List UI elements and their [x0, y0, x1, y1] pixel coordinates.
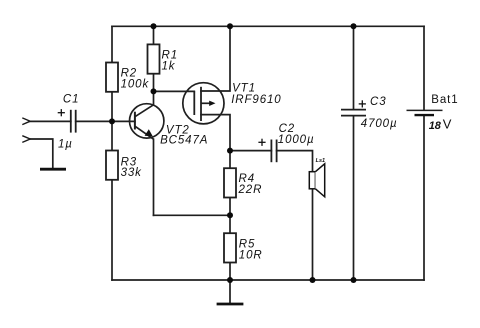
wire C1 to input node — [76, 120, 112, 122]
wire VT2 collector — [135, 91, 153, 116]
svg-text:IRF9610: IRF9610 — [231, 94, 281, 106]
VT2 emitter with arrow — [135, 126, 153, 139]
svg-text:1k: 1k — [162, 61, 176, 73]
wire R5 branch — [229, 215, 231, 280]
svg-text:1000µ: 1000µ — [278, 134, 315, 146]
wire input to C1 — [30, 120, 71, 122]
wire C3 branch upper — [353, 26, 355, 109]
wire C2 to speaker — [277, 151, 313, 172]
node C3 rail — [351, 277, 357, 283]
wire VT1 source lead — [201, 115, 230, 151]
wire top rail — [112, 25, 424, 27]
resistor R1 — [148, 44, 160, 73]
node top C3 — [351, 23, 357, 29]
wire source node to C2 — [230, 150, 271, 152]
node top R1 — [151, 23, 157, 29]
capacitor C2 — [271, 140, 276, 163]
svg-text:BC547A: BC547A — [160, 135, 208, 147]
resistor R4 — [224, 168, 236, 197]
transistor VT1 body circle — [183, 83, 224, 124]
node R4/R5/emitter — [227, 212, 233, 218]
svg-text:18: 18 — [429, 120, 442, 132]
wire C3 branch lower — [353, 116, 355, 280]
ground (main) — [217, 303, 244, 306]
transistor VT2 (BC547A) — [130, 104, 209, 147]
wire ground stub — [229, 280, 231, 303]
svg-text:33k: 33k — [121, 167, 143, 179]
wire R4 branch — [229, 151, 231, 216]
svg-text:4700µ: 4700µ — [361, 118, 398, 130]
svg-text:V: V — [443, 117, 452, 132]
svg-text:Ls1: Ls1 — [316, 158, 325, 164]
resistor R2 — [106, 63, 118, 92]
wire emitter to R4/R5 node — [154, 214, 231, 216]
VT1 gate bar — [193, 91, 195, 115]
input terminal lower — [22, 136, 30, 143]
node source/C2 — [227, 148, 233, 154]
node gate/R1 — [151, 88, 157, 94]
node speaker rail — [310, 277, 316, 283]
input terminal upper — [22, 118, 30, 125]
VT2 body circle — [130, 104, 164, 138]
speaker Ls1 — [309, 158, 325, 197]
resistor R5 — [224, 233, 236, 262]
node ground rail — [227, 277, 233, 283]
transistor VT1 (MOSFET IRF9610) — [183, 83, 282, 124]
VT1 channel bar — [200, 87, 202, 121]
VT2 base bar — [134, 112, 136, 130]
wire bottom rail — [112, 279, 424, 281]
node top drain — [227, 23, 233, 29]
svg-text:VT1: VT1 — [232, 83, 256, 95]
svg-text:22R: 22R — [238, 184, 263, 196]
svg-text:Bat1: Bat1 — [431, 94, 458, 106]
ground (input side) — [40, 168, 66, 171]
wire battery branch lower — [423, 115, 425, 280]
VT1 substrate arrow — [201, 102, 210, 104]
wire VT2 base lead — [112, 120, 135, 122]
svg-text:1µ: 1µ — [58, 139, 73, 151]
wire VT2 emitter vertical — [153, 139, 155, 215]
capacitor C1 — [71, 110, 76, 133]
battery Bat1 — [407, 109, 443, 111]
svg-text:10R: 10R — [239, 250, 263, 262]
wire left vertical (R2/R3 branch) — [111, 26, 113, 280]
node input/base — [109, 118, 115, 124]
wire battery branch upper — [423, 26, 425, 110]
svg-text:100k: 100k — [121, 78, 150, 90]
wire gate node horizontal — [154, 90, 195, 92]
svg-text:C3: C3 — [370, 96, 387, 108]
resistor R3 — [106, 151, 118, 180]
capacitor C3 — [341, 110, 366, 116]
wire R1 branch vertical — [153, 26, 155, 91]
svg-text:C1: C1 — [63, 93, 80, 105]
wire VT1 drain branch — [201, 26, 230, 91]
wire speaker to bottom rail — [312, 189, 314, 280]
wire lower input to ground — [30, 139, 53, 168]
